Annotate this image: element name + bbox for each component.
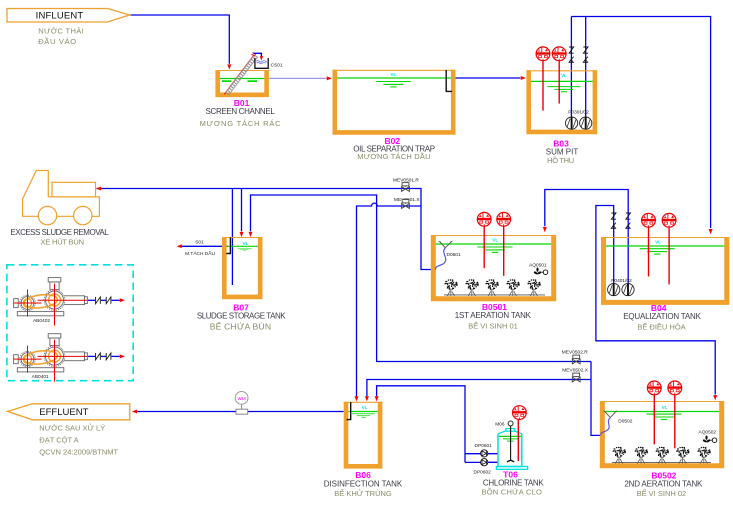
check valve on B04 pump line 1 [611, 213, 616, 228]
svg-text:QCVN 24:2009/BTNMT: QCVN 24:2009/BTNMT [39, 448, 118, 457]
svg-text:BỂ VI SINH 01: BỂ VI SINH 01 [468, 322, 518, 331]
check valve on B03 pump line 1 [569, 47, 574, 62]
svg-text:VL: VL [390, 72, 396, 77]
svg-text:NƯỚC THẢI: NƯỚC THẢI [38, 27, 84, 36]
diffusers B0501 [444, 279, 545, 296]
svg-text:MƯƠNG TÁCH RÁC: MƯƠNG TÁCH RÁC [200, 119, 282, 128]
sludge removal truck [23, 171, 100, 225]
mixer stems B0502 [654, 395, 675, 449]
pipe influent to B01 [130, 15, 232, 70]
svg-text:CS01: CS01 [271, 62, 283, 68]
chlorine tank T06 [496, 429, 527, 470]
svg-text:WM: WM [238, 396, 246, 401]
mixer motor M06 [495, 421, 514, 462]
svg-text:SCREEN CHANNEL: SCREEN CHANNEL [206, 107, 276, 116]
pipe MEV0502.X line to B06 [365, 380, 591, 402]
svg-text:EXCESS SLUDGE REMOVAL: EXCESS SLUDGE REMOVAL [10, 228, 109, 237]
dosing pump DP0601 [475, 443, 493, 457]
pipe drop into B07 from return header [240, 189, 244, 238]
svg-text:BỂ VI SINH 02: BỂ VI SINH 02 [637, 489, 687, 498]
pipe screen to CS01 [253, 53, 263, 60]
tank B03 [526, 70, 597, 132]
mixer symbol B04 no.2 [662, 213, 676, 227]
pipe S01 supernatant from B07 to oil trap [177, 244, 228, 248]
svg-text:BỒN CHỨA CLO: BỒN CHỨA CLO [481, 487, 542, 497]
influent vietnamese labels [38, 27, 84, 47]
labels B04 [623, 303, 701, 332]
valve MEV0502.X [562, 367, 588, 382]
svg-text:VL: VL [362, 405, 368, 410]
svg-text:2ND AERATION TANK: 2ND AERATION TANK [624, 480, 703, 489]
mixer symbol B03 no.1 [536, 47, 550, 61]
labels T06 [481, 470, 544, 497]
tank B04 [601, 237, 729, 302]
svg-text:P0301/02: P0301/02 [568, 109, 589, 115]
labels B07 [197, 302, 286, 331]
svg-text:EFFLUENT: EFFLUENT [39, 407, 88, 418]
labels B06 [324, 470, 403, 498]
svg-text:VL: VL [492, 237, 498, 242]
diffusers B0502 [612, 447, 711, 464]
tank B02 [333, 70, 456, 133]
svg-text:B06: B06 [355, 470, 371, 480]
pumps P0401/02 [608, 278, 635, 296]
svg-text:DISINFECTION TANK: DISINFECTION TANK [324, 480, 403, 489]
pipe MEV0501.X line to B06 [355, 203, 422, 401]
decanter D0501 [436, 241, 461, 269]
decanter D0502 [601, 411, 633, 436]
svg-text:DP0602: DP0602 [474, 469, 492, 475]
svg-text:S01: S01 [195, 239, 204, 245]
svg-text:M.TÁCH DẦU: M.TÁCH DẦU [185, 250, 215, 257]
CS01 screenings box [255, 58, 283, 68]
mixer stems B04 [649, 227, 670, 284]
tank B06 [344, 402, 383, 467]
svg-text:HỒ THU: HỒ THU [547, 155, 574, 165]
svg-text:SLUDGE STORAGE TANK: SLUDGE STORAGE TANK [197, 312, 286, 321]
tank B01 [215, 70, 269, 95]
svg-text:ĐẦU VÀO: ĐẦU VÀO [38, 36, 77, 46]
effluent vietnamese labels [39, 424, 118, 457]
mixer symbol B0502 no.2 [668, 381, 682, 395]
svg-text:BỂ ĐIỀU HÒA: BỂ ĐIỀU HÒA [637, 321, 685, 331]
pipe B02 to B03 [456, 76, 526, 80]
baffle in B06 [347, 402, 351, 420]
check valve on B03 pump line 2 [583, 47, 588, 62]
svg-text:D0502: D0502 [618, 418, 632, 424]
effluent banner [8, 404, 130, 420]
svg-text:EQUALIZATION TANK: EQUALIZATION TANK [623, 312, 701, 321]
svg-text:VL: VL [243, 241, 249, 246]
pipe chlorine dosing to B06 [375, 386, 498, 463]
svg-text:VL: VL [655, 240, 661, 245]
mixer symbol T06 [513, 406, 527, 461]
svg-text:MƯƠNG TÁCH DẦU: MƯƠNG TÁCH DẦU [357, 151, 430, 161]
svg-text:VL: VL [561, 73, 567, 78]
tank B0501 [431, 235, 556, 299]
pipe sludge return header to truck and B07 [96, 187, 436, 270]
svg-text:MEV0502.X: MEV0502.X [562, 367, 588, 373]
svg-text:BỂ CHỨA BÙN: BỂ CHỨA BÙN [210, 321, 272, 332]
baffle in B02 [446, 70, 452, 91]
pipe B01 to B02 [269, 76, 332, 80]
pipe B0502 outlet drop to D0502 [591, 362, 601, 436]
aerator AQ0502 [699, 430, 717, 443]
influent banner [7, 9, 130, 23]
labels B0501 [455, 302, 532, 331]
svg-text:XE HÚT BÙN: XE HÚT BÙN [41, 238, 84, 247]
svg-text:VL: VL [662, 405, 668, 410]
pipe B0502 sludge return to B07 [249, 195, 592, 362]
labels B01 [200, 98, 282, 128]
svg-text:AQ0502: AQ0502 [699, 430, 717, 436]
labels B0502 [624, 471, 703, 499]
svg-text:NƯỚC SAU XỬ LÝ: NƯỚC SAU XỬ LÝ [39, 424, 105, 433]
svg-text:ĐẠT CỘT A: ĐẠT CỘT A [39, 435, 78, 444]
pipe effluent from B06 [132, 410, 344, 414]
blower AB0402 [14, 278, 125, 326]
svg-text:AQ0501: AQ0501 [529, 262, 547, 268]
svg-text:INFLUENT: INFLUENT [36, 10, 84, 21]
svg-text:BỂ KHỬ TRÙNG: BỂ KHỬ TRÙNG [334, 489, 392, 498]
labels B02 [353, 136, 434, 161]
S01 line labels [185, 239, 215, 257]
valve MEV0502.R [562, 350, 588, 364]
pipe B04 pump P0401 to B0502 [596, 206, 717, 401]
svg-text:AB0402: AB0402 [33, 318, 50, 324]
pipe truck suction into B07 [231, 189, 233, 286]
valve MEV0501.R [393, 177, 419, 191]
pipe B03 pumps to B04 [571, 17, 712, 235]
pipe B04 pump P0402 to B0501 [543, 190, 628, 284]
svg-text:D0501: D0501 [447, 252, 461, 258]
blower AB0401 [14, 334, 125, 382]
mixer symbol B0501 no.2 [497, 212, 511, 226]
flow meter WM [235, 392, 248, 415]
bar screen in B01 [224, 53, 257, 95]
mixer stems B0501 [484, 226, 504, 276]
truck labels [10, 228, 109, 247]
blower AB0402 label [33, 318, 50, 324]
svg-text:CHLORINE TANK: CHLORINE TANK [483, 479, 544, 488]
baffle in B07 [226, 237, 230, 253]
mixer symbol B03 no.2 [552, 47, 566, 61]
svg-text:1ST AERATION TANK: 1ST AERATION TANK [455, 311, 532, 320]
svg-text:P0401/02: P0401/02 [611, 278, 632, 284]
tank B07 [222, 237, 263, 297]
svg-text:DP0601: DP0601 [475, 443, 493, 449]
pumps P0301/02 [566, 109, 592, 129]
svg-text:AB0401: AB0401 [32, 374, 49, 380]
check valve on B04 pump line 2 [626, 213, 631, 228]
labels B03 [546, 138, 579, 165]
mixer symbol B04 no.1 [642, 213, 656, 227]
dosing pump DP0602 [474, 459, 492, 476]
svg-text:M06: M06 [495, 422, 505, 428]
mixer symbol B0502 no.1 [647, 381, 661, 395]
submersible mixer stems B03 [543, 61, 559, 111]
tank B0502 [600, 401, 724, 466]
mixer symbol B0501 no.1 [477, 212, 491, 226]
blower enclosure (dashed) [7, 265, 133, 381]
valve MEV0501.X [394, 197, 420, 209]
blower AB0401 label [32, 374, 49, 380]
aerator AQ0501 [529, 262, 548, 275]
